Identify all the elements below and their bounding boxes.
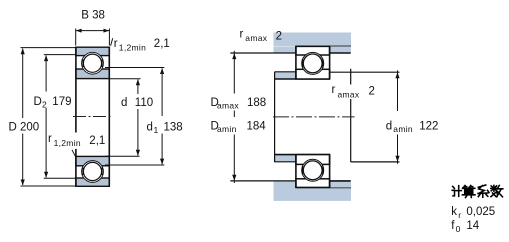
glyph suan — [462, 186, 475, 198]
ball bottom (left bearing) — [83, 162, 101, 180]
dimension d 110 — [110, 78, 141, 80]
svg-text:amax: amax — [245, 33, 267, 43]
inner ring bottom (left bearing) — [76, 156, 109, 165]
svg-text:122: 122 — [419, 120, 438, 132]
leader r top — [111, 38, 113, 46]
outer ring bottom (left bearing) — [76, 178, 109, 186]
svg-text:amin: amin — [217, 124, 237, 134]
ball top (left bearing) — [83, 54, 101, 72]
svg-text:amax: amax — [338, 90, 360, 100]
svg-text:1,2min: 1,2min — [119, 43, 146, 53]
groove cut top (right bearing) — [302, 52, 324, 74]
svg-text:138: 138 — [164, 121, 183, 133]
svg-text:2,1: 2,1 — [89, 135, 105, 147]
face lines top (right bearing) — [295, 46, 297, 79]
svg-text:1: 1 — [154, 125, 159, 135]
svg-text:r: r — [458, 210, 461, 220]
outer ring top (left bearing) — [76, 47, 109, 55]
svg-text:188: 188 — [247, 97, 266, 109]
dimension B 38 — [75, 29, 77, 46]
outer ring bottom (right bearing, white) — [296, 179, 330, 188]
glyph shu — [491, 185, 503, 196]
outer ring top (right bearing, white) — [296, 46, 330, 55]
svg-text:0,025: 0,025 — [466, 206, 495, 218]
glyph ji — [452, 186, 461, 197]
housing band bottom — [274, 187, 352, 201]
svg-text:110: 110 — [135, 97, 153, 109]
dimension d1 138 — [105, 67, 164, 69]
dimension d_amin 122 — [397, 70, 399, 111]
housing shoulder bottom-right — [330, 181, 351, 188]
shaft shoulder surface right + d_amin ext top — [330, 71, 400, 73]
svg-text:D: D — [34, 96, 42, 108]
housing band top — [274, 33, 352, 47]
inner ring bottom (right bearing, white) — [296, 155, 330, 165]
shaft seat line top — [275, 78, 330, 80]
cage ticks bottom (left bearing) — [82, 168, 84, 176]
housing shoulder top-right — [330, 46, 351, 53]
cage ticks top (left bearing) — [82, 60, 84, 68]
svg-text:2: 2 — [42, 100, 47, 110]
svg-text:1,2min: 1,2min — [54, 138, 81, 148]
shaft seat line bottom — [275, 154, 330, 156]
svg-text:d: d — [386, 120, 392, 132]
svg-text:r: r — [240, 28, 244, 40]
inner ring top (right bearing, white) — [296, 69, 330, 79]
groove cut bottom (right bearing) — [302, 159, 324, 181]
inner ring top (left bearing) — [76, 69, 109, 79]
dimension D2 179 — [44, 54, 76, 56]
centerline (left figure) — [73, 116, 112, 118]
ball top (right bearing) — [303, 54, 322, 73]
svg-text:14: 14 — [466, 220, 479, 232]
dimension Da 188/184 — [233, 51, 235, 94]
housing shoulder top-left — [274, 46, 296, 53]
shaft shoulder band top-left — [275, 72, 296, 79]
shaft right end face line — [350, 69, 352, 85]
svg-text:k: k — [451, 206, 457, 218]
svg-text:179: 179 — [52, 96, 71, 108]
svg-text:0: 0 — [456, 224, 461, 234]
shaft shoulder band bottom-left — [275, 155, 296, 162]
svg-text:amin: amin — [393, 124, 413, 134]
leader r bottom — [72, 150, 76, 158]
CJK text 计算系数 (drawn strokes) — [452, 185, 503, 198]
svg-text:2,1: 2,1 — [154, 38, 170, 50]
ball bottom (right bearing) — [303, 161, 322, 180]
right face / bore silhouette line — [108, 47, 110, 187]
svg-text:B 38: B 38 — [81, 10, 105, 22]
housing bore line top — [296, 45, 351, 47]
svg-text:d: d — [121, 97, 127, 109]
cage ticks top (right bearing) — [302, 59, 304, 68]
dimension D 200 — [21, 47, 76, 49]
svg-text:2: 2 — [276, 31, 282, 43]
svg-text:d: d — [147, 121, 153, 133]
svg-text:2: 2 — [369, 86, 375, 98]
groove cut bottom (left bearing) — [82, 161, 104, 183]
svg-text:r: r — [48, 133, 52, 145]
housing shoulder bottom-left — [274, 181, 296, 188]
svg-text:amax: amax — [217, 101, 239, 111]
svg-text:r: r — [332, 84, 336, 96]
glyph xi — [478, 185, 489, 197]
shaft silhouette left edge — [274, 72, 276, 162]
centerline (right figure) — [273, 116, 355, 118]
shaft bottom surface right + d_amin ext bottom — [351, 161, 400, 163]
groove cut top (left bearing) — [82, 52, 104, 74]
cage ticks bottom (right bearing) — [302, 166, 304, 175]
housing bore line bottom — [296, 186, 351, 188]
face lines bottom (right bearing) — [295, 155, 297, 188]
left face / bore silhouette line — [75, 47, 77, 133]
svg-text:184: 184 — [247, 121, 267, 133]
svg-text:r: r — [114, 38, 118, 50]
svg-text:D 200: D 200 — [9, 122, 40, 134]
